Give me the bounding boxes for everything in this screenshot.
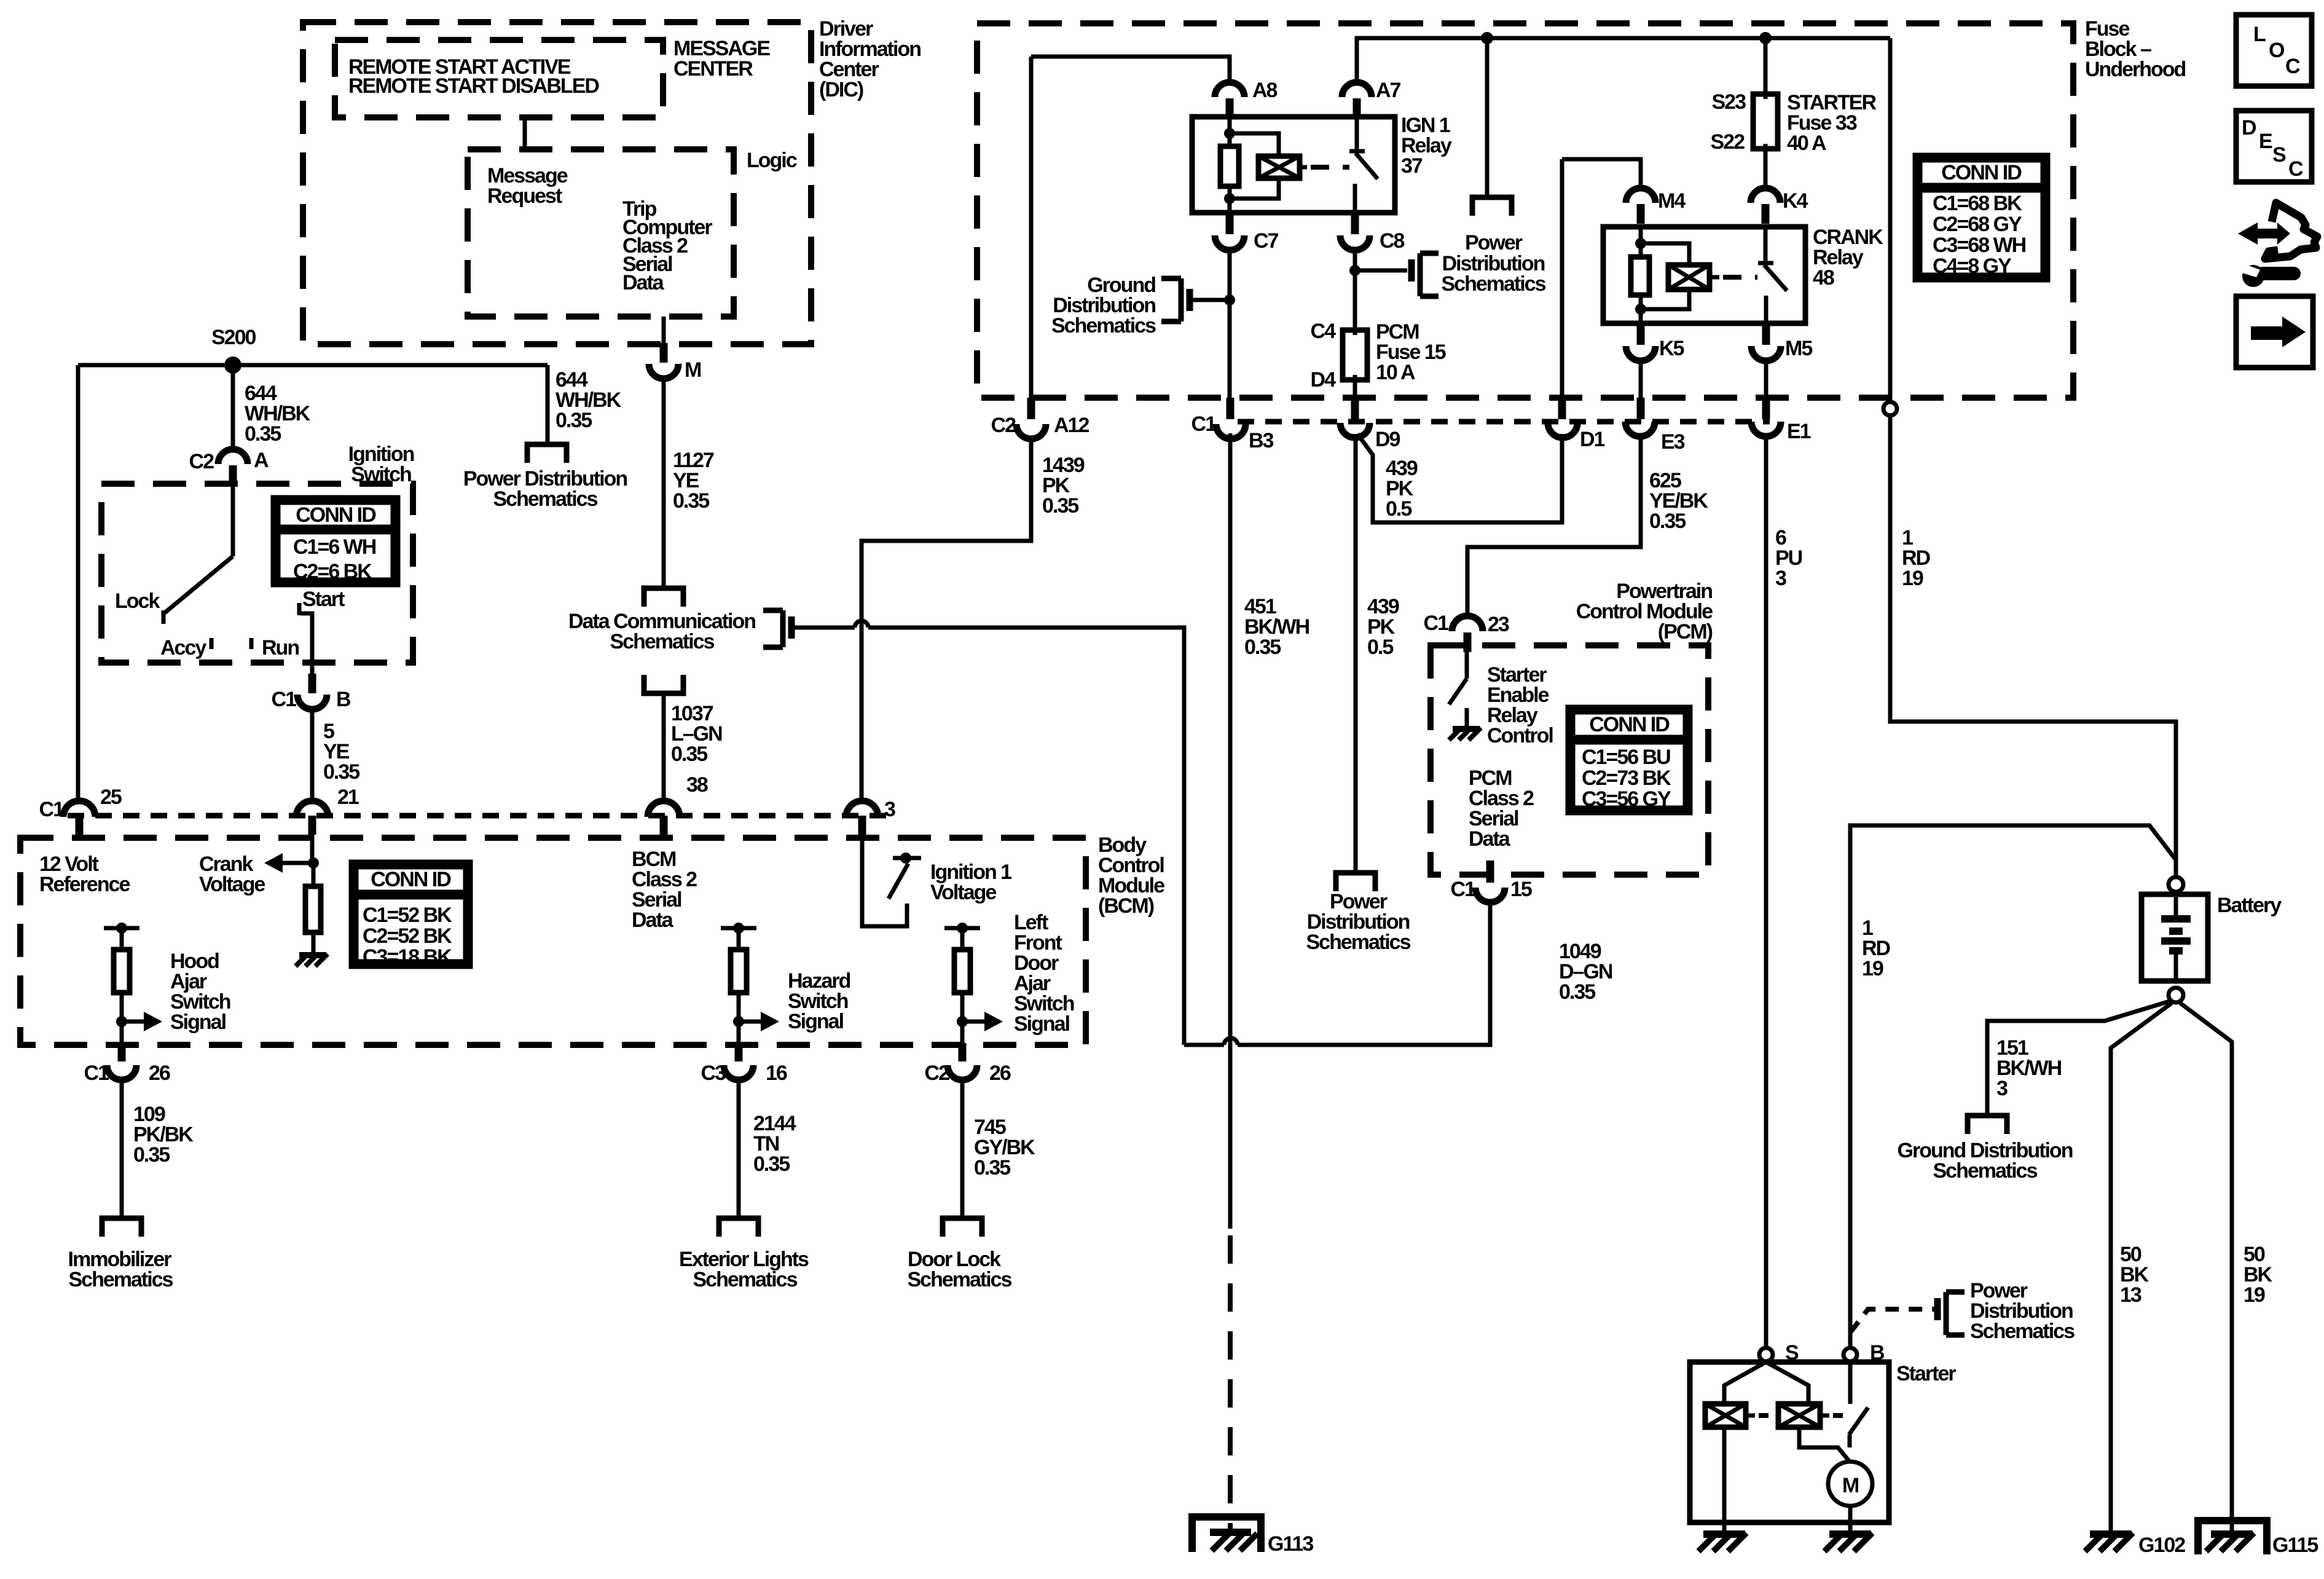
contact Run [249,638,254,649]
wire motor to ground [1848,1506,1853,1530]
svg-text:(PCM): (PCM) [1658,620,1713,644]
label Battery [2217,894,2282,917]
svg-text:26: 26 [149,1061,170,1085]
terminal B [1843,1341,1885,1364]
connector C1 B3 [1191,398,1274,452]
label STARTER Fuse 33 40A [1787,91,1876,155]
label 1 RD 19 starter [1862,916,1891,980]
svg-text:S22: S22 [1711,130,1745,154]
svg-text:C3=68 WH: C3=68 WH [1933,234,2026,257]
wire S200 right drop to power distribution [546,365,550,444]
door signal arrow [962,1012,1003,1031]
svg-text:C1: C1 [1424,612,1449,635]
text Message Request [487,164,568,208]
node S200 junction dot [224,356,241,374]
wire battery to starter B [1850,825,2176,1348]
wire message center to logic box [523,117,527,149]
text 12 Volt Reference [39,853,130,896]
svg-text:CONN ID: CONN ID [296,503,376,527]
label Lock [115,589,160,613]
label G102 [2138,1534,2185,1557]
fork immobilizer [102,1218,141,1237]
connector M5 [1751,325,1812,361]
svg-text:Voltage: Voltage [199,873,265,896]
connector M [649,343,701,382]
label 644 WH/BK 0.35 left [245,382,311,446]
svg-text:C3: C3 [701,1061,726,1085]
svg-text:L: L [2253,23,2266,46]
svg-text:Schematics: Schematics [1051,314,1156,337]
svg-text:Schematics: Schematics [610,630,715,653]
svg-text:13: 13 [2120,1283,2141,1307]
ground starter coil1 [1698,1533,1746,1551]
starter enable relay control switch [1449,646,1467,728]
label D4 [1311,368,1337,392]
label C4 [1311,320,1337,343]
label 5 YE 0.35 [323,720,359,784]
svg-text:B3: B3 [1249,429,1274,452]
wire E1 to starter S [1764,436,1769,1348]
arrow box icon [2236,296,2313,368]
svg-text:C2: C2 [189,450,214,473]
wire hazard resistor down [737,993,741,1045]
svg-text:(BCM): (BCM) [1098,894,1154,918]
wire C1 26 to immobilizer [120,1080,124,1218]
node top bus junction 2420 [1481,32,1493,44]
text Power Distribution Schematics right [1442,231,1546,296]
wire M4 feed [1562,159,1641,188]
label 1 RD 19 top [1902,526,1931,590]
fork power distribution PCM [1336,873,1375,891]
svg-text:C2=52 BK: C2=52 BK [363,924,452,948]
label 625 YE/BK 0.35 [1649,469,1708,533]
svg-text:10 A: 10 A [1376,361,1415,384]
bracket power distribution starter [1937,1292,1965,1335]
Message Center dashed box [335,40,663,117]
ignition 1 voltage switch blade [889,864,908,899]
wire K5 to E3 [1639,361,1643,398]
svg-text:Request: Request [487,184,562,208]
svg-text:25: 25 [100,786,122,809]
svg-text:A: A [254,449,269,472]
solenoid coil 2 [1778,1404,1820,1427]
svg-text:M4: M4 [1658,189,1686,213]
svg-text:O: O [2269,39,2285,62]
crank voltage arrow [264,853,313,873]
starter power dist dashed stub [1850,1309,1934,1333]
wire resistor to C7 [1228,186,1232,213]
label Ignition 1 Voltage [930,860,1011,904]
ignition 1 voltage switch bar [893,853,921,864]
connector C1 23 [1424,612,1509,652]
svg-text:0.35: 0.35 [753,1152,790,1176]
label 439 PK 0.5 link [1386,457,1418,521]
svg-text:48: 48 [1813,266,1834,289]
wire junction to S23 fuse [1764,38,1768,94]
wire dashed to G113 [1228,1235,1233,1532]
fork door lock [943,1218,982,1237]
ground G115 [2206,1533,2254,1551]
wire E3 to C1 23 [1467,436,1641,616]
Ignition Switch dashed box [101,484,413,663]
svg-text:Voltage: Voltage [930,881,996,904]
svg-text:S23: S23 [1712,90,1746,114]
connector M4 [1626,188,1686,224]
ground G115 bracket [2198,1521,2267,1554]
svg-text:Schematics: Schematics [1933,1159,2038,1183]
label PCM Fuse 15 10A [1376,320,1446,384]
text Power Distribution Schematics mid [1306,890,1411,954]
label 644 WH/BK 0.35 right [555,368,622,432]
resistor CRANK relay [1631,257,1649,295]
svg-text:3: 3 [884,798,895,821]
svg-text:D1: D1 [1580,428,1605,451]
label G115 [2272,1534,2318,1557]
wire D9 down long [1354,434,1358,873]
svg-text:0.35: 0.35 [323,760,359,784]
label 109 PK/BK 0.35 [133,1103,194,1167]
label 6 PU 3 [1775,526,1802,590]
svg-text:C8: C8 [1380,229,1405,253]
label 151 BK/WH 3 [1996,1036,2062,1100]
ring fuse block exit [1883,402,1897,415]
wire coil branch IGN1 [1230,133,1279,199]
node junction 21 wire [308,857,319,868]
contact Accy [210,638,214,649]
svg-text:C1=6 WH: C1=6 WH [293,535,376,559]
svg-text:Power: Power [1465,231,1523,254]
starter box [1690,1362,1889,1522]
svg-text:40 A: 40 A [1787,132,1826,155]
svg-text:Schematics: Schematics [1442,272,1546,296]
svg-text:Schematics: Schematics [1306,931,1411,954]
coil CRANK relay [1668,265,1710,289]
ground starter motor [1824,1533,1872,1551]
node C7 junction [1224,294,1235,305]
wire to power dist bracket C8 [1355,269,1407,273]
wire coil1 to ground [1722,1427,1727,1530]
svg-text:Schematics: Schematics [1970,1320,2075,1343]
connector A7 [1342,79,1401,118]
svg-text:C2=73 BK: C2=73 BK [1582,766,1671,790]
svg-text:0.35: 0.35 [671,742,707,766]
svg-text:C1=52 BK: C1=52 BK [363,904,452,927]
svg-text:D: D [2242,116,2256,140]
wire door ajar to resistor [960,928,965,950]
svg-text:Switch: Switch [351,463,411,486]
wire S200 down to ignition switch A [231,365,235,449]
text Exterior Lights Schematics [679,1248,809,1291]
svg-text:Logic: Logic [747,149,797,172]
hazard signal arrow [739,1012,779,1031]
text Starter Enable Relay Control [1487,663,1553,747]
resistor IGN1 relay [1220,146,1239,186]
label 38 [686,773,708,797]
svg-text:21: 21 [337,786,359,809]
svg-text:15: 15 [1510,878,1532,901]
label S200 [211,326,256,349]
svg-text:37: 37 [1401,154,1423,178]
Fuse Block Underhood dashed box [977,23,2073,398]
wire crank resistor to K5 [1639,295,1643,323]
fork data comm upper [644,588,683,607]
svg-text:M: M [685,358,701,382]
wire M4 into relay [1639,227,1643,257]
ground G113 [1192,1517,1261,1552]
svg-text:C1: C1 [1451,878,1476,901]
wire battery to 151 [1987,1001,2172,1116]
svg-text:C4=8 GY: C4=8 GY [1933,254,2012,278]
svg-text:D9: D9 [1375,428,1400,451]
text Power Distribution Schematics starter [1970,1279,2075,1343]
wire fuse to K4 [1764,149,1768,188]
label 50 BK 13 [2120,1243,2149,1307]
svg-text:G115: G115 [2272,1534,2318,1557]
BCM connector dotted line [68,813,891,819]
label S23 [1712,90,1746,114]
wire D1 feed down [1560,159,1564,398]
label Body Control Module BCM [1098,833,1164,918]
svg-text:0.5: 0.5 [1367,636,1393,659]
connector K5 [1626,325,1684,361]
label Ignition Switch [348,443,414,486]
coil arm CRANK [1710,275,1757,280]
fork to power distribution schematics [527,444,567,463]
text Hood Ajar Switch Signal [170,950,230,1034]
svg-text:Signal: Signal [788,1010,844,1033]
label 745 GY/BK 0.35 [974,1116,1035,1179]
solenoid coil 1 [1705,1404,1746,1427]
resistor hood ajar [114,950,130,993]
wire 3 to switch U route [862,835,907,926]
text Data Communication Schematics [568,610,755,653]
text PCM Class 2 Serial Data [1469,766,1534,851]
svg-text:C1: C1 [39,798,65,821]
LOC box [2236,15,2312,86]
node relay coil bottom [1224,193,1235,204]
fork exterior lights [719,1218,758,1237]
connector C2 A ignition switch [189,449,269,485]
svg-text:Schematics: Schematics [693,1268,798,1291]
node relay coil top [1224,128,1235,139]
connector row dotted line [1238,419,1770,425]
wire A into switch [231,485,235,556]
label Starter [1896,1362,1956,1385]
svg-text:C2=6 BK: C2=6 BK [293,560,372,583]
svg-text:CENTER: CENTER [673,57,753,81]
svg-text:C2: C2 [925,1061,950,1085]
wire to ground dist bracket [1193,298,1230,302]
svg-text:Underhood: Underhood [2085,58,2186,81]
label 1127 YE 0.35 [673,449,714,513]
fuse STARTER Fuse 33 [1753,94,1778,149]
wire A12 vertical [1029,57,1034,398]
connector E3 [1625,398,1685,454]
connector D9 [1340,398,1400,451]
wire B3 451 down [1228,433,1233,1229]
svg-text:S: S [2272,143,2286,167]
connector C1 B [272,674,351,711]
wire ring to battery [1890,415,2176,877]
ground BCM internal [296,954,328,966]
svg-text:K5: K5 [1659,337,1684,360]
wire A12 branch top [1031,57,1230,82]
fork data comm lower [644,675,683,693]
label MESSAGE CENTER [673,37,770,81]
ground starter enable relay [1449,728,1481,740]
node top bus junction [1759,32,1772,44]
text Crank Voltage [199,853,265,896]
svg-text:Battery: Battery [2217,894,2282,917]
text Door Lock Schematics [908,1248,1012,1291]
switch IGN1 relay [1349,117,1378,213]
node hazard junction [733,1016,744,1027]
node C8 junction [1349,265,1360,276]
svg-text:G113: G113 [1268,1532,1313,1556]
wire fuse to D9 [1353,380,1357,398]
label IGN 1 Relay 37 [1401,114,1452,178]
label Start [302,588,345,611]
svg-text:A12: A12 [1054,414,1089,437]
label 1439 PK 0.35 [1042,454,1085,518]
label 439 PK 0.5 long [1367,595,1399,659]
wire C7 down [1228,250,1232,398]
PCM dashed box [1431,645,1708,875]
svg-text:C: C [2288,157,2303,181]
svg-text:C1: C1 [84,1061,109,1085]
svg-text:A7: A7 [1376,79,1401,102]
svg-text:C3=56 GY: C3=56 GY [1582,787,1671,811]
CONN ID box BCM [351,862,470,969]
wire M5 to E1 [1764,361,1769,398]
label Powertrain Control Module PCM [1576,580,1713,644]
svg-text:0.5: 0.5 [1386,497,1411,521]
connector E1 [1751,398,1811,443]
bracket ground distribution [1161,278,1190,321]
svg-text:B: B [336,688,351,711]
svg-text:Signal: Signal [1014,1012,1070,1036]
connector C7 [1215,215,1279,253]
resistor BCM crank voltage [305,886,321,932]
CONN ID box ignition switch [273,498,398,585]
svg-text:C2=68 GY: C2=68 GY [1933,213,2022,236]
svg-text:C1=68 BK: C1=68 BK [1933,192,2022,215]
svg-text:C2: C2 [991,414,1016,437]
text Power Distribution Schematics ref [463,467,627,511]
svg-text:Reference: Reference [39,873,130,896]
label S22 [1711,130,1745,154]
connector C2 26 door [925,1043,1011,1085]
svg-text:19: 19 [1902,567,1923,590]
svg-text:Schematics: Schematics [493,487,598,511]
svg-text:Accy: Accy [160,636,206,660]
svg-text:0.35: 0.35 [245,422,281,446]
wire hazard to resistor [737,928,741,950]
label 451 BK/WH 0.35 [1244,595,1309,659]
label G113 [1268,1532,1313,1556]
hand wrench icon [2238,203,2317,287]
ground G102 [2085,1533,2133,1551]
CONN ID box fuse block [1915,156,2047,280]
wire A12 down [862,439,1031,801]
svg-text:E1: E1 [1787,420,1811,443]
DIC dashed box (Driver Information Center) [303,22,811,344]
label 1049 D-GN 0.35 [1559,940,1612,1004]
switch blade ignition to Lock [165,556,233,613]
Logic dashed box [468,149,734,317]
connector 38 at BCM line [648,801,680,835]
wire B to BCM pin 21 [310,709,315,802]
connector C1 26 [84,1043,170,1085]
BCM dashed box [20,838,1086,1045]
svg-text:C3=18 BK: C3=18 BK [363,945,452,969]
svg-text:CONN ID: CONN ID [371,868,451,891]
svg-text:REMOTE START DISABLED: REMOTE START DISABLED [348,74,599,98]
connector D1 [1548,398,1605,451]
wire data comm bracket to right [794,621,1184,1045]
svg-text:0.35: 0.35 [1042,494,1078,518]
node door junction [957,1016,968,1027]
text Hazard Switch Signal [788,969,850,1033]
svg-text:19: 19 [1862,957,1883,980]
relay IGN 1 box [1192,117,1395,213]
fork ground distribution [1968,1116,2007,1134]
wire S200 horizontal bus [78,363,548,368]
svg-text:K4: K4 [1783,189,1808,213]
svg-text:26: 26 [989,1061,1011,1085]
label CRANK Relay 48 [1813,226,1883,289]
coil link dashes [1746,1414,1843,1418]
svg-text:C7: C7 [1254,229,1279,253]
label 2144 TN 0.35 [753,1112,796,1176]
svg-text:M5: M5 [1785,337,1812,360]
svg-text:G102: G102 [2138,1534,2185,1557]
battery bottom terminal [2169,988,2183,1002]
connector C8 [1340,215,1405,253]
label Driver Information Center (DIC) [819,17,921,101]
wire door resistor down [960,993,965,1045]
svg-text:M: M [1842,1474,1859,1497]
label 1037 L-GN 0.35 [671,702,722,766]
battery cell symbol [2161,892,2191,981]
svg-text:CONN ID: CONN ID [1589,713,1670,736]
text Immobilizer Schematics [68,1248,173,1291]
wire C3 16 to exterior lights [737,1080,741,1218]
svg-text:CONN ID: CONN ID [1941,161,2022,184]
resistor hazard switch [731,950,747,993]
contact Lock [162,610,166,624]
svg-text:Run: Run [262,636,299,660]
connector C1 15 [1451,860,1532,902]
label Logic [747,149,797,172]
wire battery to G115 [2180,1003,2232,1530]
connector A8 [1215,79,1278,118]
wire logic box to M connector [662,317,666,344]
wire resistor to ground [312,932,316,954]
svg-text:Starter: Starter [1896,1362,1956,1385]
wire resistor to junction [120,993,124,1045]
svg-text:C1=56 BU: C1=56 BU [1582,746,1670,769]
bracket data comm schematics [763,610,791,647]
battery box [2141,894,2208,981]
svg-text:0.35: 0.35 [673,489,709,513]
connector C1 25 [39,786,122,835]
battery top terminal [2169,877,2183,892]
wire top bus to power dist fork [1485,38,1490,197]
svg-text:Lock: Lock [115,589,160,613]
wire S200 left drop to C1 pin 25 [76,365,80,802]
contact Start [297,603,302,615]
